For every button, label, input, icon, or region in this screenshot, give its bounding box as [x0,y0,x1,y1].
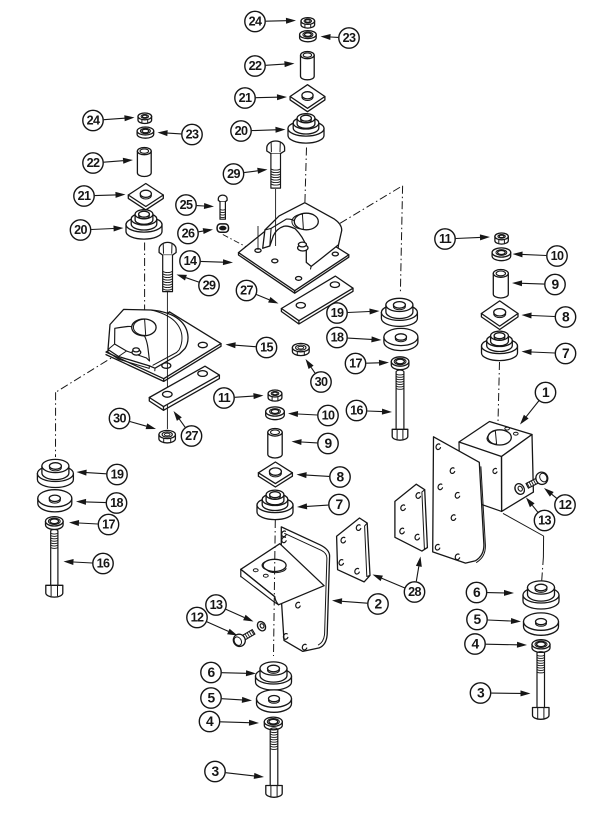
centerline nut26 to bracket14 hole [223,235,255,252]
svg-text:27: 27 [185,429,198,443]
svg-text:20: 20 [235,124,248,138]
svg-text:23: 23 [186,128,199,142]
callout 18 arrow [76,493,127,513]
svg-text:12: 12 [559,498,572,512]
nut 11 center [268,390,282,401]
callout 7 arrow [297,494,349,514]
washer 10 center [266,407,285,420]
svg-text:10: 10 [551,249,564,263]
bolt 3 bottom [266,728,282,797]
washer 13 right [513,482,526,496]
washer 13 left [256,620,267,632]
isolator 6 bottom [256,662,292,690]
svg-text:7: 7 [335,497,343,512]
callout 9 arrow [512,274,565,294]
svg-text:30: 30 [113,412,126,426]
callout 6 arrow [466,582,514,602]
isolator 19 left [37,459,73,487]
callout 10 arrow [513,246,568,266]
hole axis line bracket14 left [257,226,259,250]
washer 23 left [137,127,154,138]
square washer plate 21 top [290,85,325,112]
spacer 22 left [137,148,151,177]
washer 18 left [38,490,72,512]
bolt 12 left [231,626,257,648]
svg-text:11: 11 [218,391,231,405]
svg-text:12: 12 [191,611,204,625]
callout 24 arrow [245,11,296,31]
nut 26 [217,224,228,232]
svg-text:20: 20 [74,223,87,237]
svg-text:25: 25 [180,198,193,212]
callout 22 arrow [245,56,295,76]
centerline bell20b to bracket14 [305,148,307,207]
bolt 25 [218,195,227,219]
nut 24 left [138,113,152,124]
svg-text:16: 16 [97,557,110,571]
square washer plate 8 right [481,301,518,330]
plate 28 right [395,484,428,551]
washer 17 left [46,517,64,530]
washer 4 bottom [264,717,282,730]
callout 20 arrow [231,121,286,141]
bolt 12 right [524,470,550,491]
svg-text:7: 7 [562,346,570,361]
svg-text:1: 1 [542,385,550,400]
callout 29 arrow [177,275,220,296]
svg-text:19: 19 [331,306,344,320]
bracket 2 [241,527,330,652]
svg-text:9: 9 [324,436,332,451]
callout 25 arrow [176,195,214,215]
callout 6 arrow [201,662,256,682]
svg-text:6: 6 [473,585,481,600]
bolt 3 right [533,652,550,720]
washer 23 top [300,31,317,42]
callout 1 arrow [520,382,556,424]
svg-text:3: 3 [211,764,219,779]
nut 24 top [301,18,315,29]
bracket 15 [106,309,221,381]
nut 30 upper [292,343,309,355]
callout 8 arrow [522,307,576,327]
callout 27 arrow [236,280,278,303]
svg-text:6: 6 [207,665,215,680]
svg-text:21: 21 [78,189,91,203]
callout 22 arrow [83,153,133,173]
bolt 29 left [159,242,176,291]
isolator 19 mid [381,298,417,326]
svg-text:4: 4 [206,714,214,729]
callout 7 arrow [522,343,576,363]
callout 4 arrow [199,711,259,731]
svg-text:30: 30 [315,375,328,389]
svg-text:2: 2 [374,597,382,612]
washer 18 mid [384,328,418,350]
svg-text:3: 3 [477,686,485,701]
nut 11 right [495,233,508,244]
callout 3 arrow [470,683,530,703]
svg-text:24: 24 [87,114,100,128]
callout 13 arrow [206,595,254,622]
callout 21 arrow [74,186,126,206]
washer 10 right [492,248,511,261]
svg-text:8: 8 [336,470,344,485]
isolator 20 left [126,210,162,240]
washer 4 right [532,640,550,653]
callout 12 arrow [187,607,238,635]
callout 5 arrow [467,609,521,629]
bolt 29 top [267,141,285,188]
svg-text:16: 16 [350,404,363,418]
callout 23 arrow [321,28,360,48]
callout 24 arrow [83,110,135,130]
svg-text:19: 19 [111,468,124,482]
callout 5 arrow [201,688,252,708]
callout 11 arrow [435,229,490,249]
centerline bell20 to bracket15 [144,243,146,318]
svg-text:26: 26 [182,227,195,241]
bolt 16 left [46,529,63,597]
callout 10 arrow [288,405,338,425]
isolator 7 center [257,490,293,520]
svg-text:11: 11 [439,232,452,246]
svg-text:28: 28 [408,585,421,599]
svg-text:10: 10 [322,409,335,423]
svg-text:15: 15 [260,341,273,355]
svg-text:8: 8 [562,310,570,325]
callout 19 arrow [77,464,128,484]
centerline bracket15 to isolator19 [56,352,121,457]
washer 5 right [524,613,559,635]
plate 28 left [337,518,370,582]
axis line bolt29 left [166,292,168,430]
svg-text:29: 29 [203,279,216,293]
callout 30 arrow [109,408,156,429]
svg-text:4: 4 [471,637,479,652]
svg-text:17: 17 [102,518,115,532]
svg-text:24: 24 [249,15,262,29]
callout 29 arrow [223,164,267,184]
svg-text:18: 18 [110,496,123,510]
washer 17 mid [391,357,409,370]
flat bar 27 upper [281,276,353,324]
callout 20 arrow [70,220,123,240]
callout 15 arrow [226,337,277,357]
callout 11 arrow [214,388,264,408]
callout 8 arrow [297,467,351,487]
square washer plate 21 left [128,184,163,210]
svg-text:18: 18 [331,331,344,345]
callout 18 arrow [327,327,382,347]
callout 13 arrow [526,498,555,531]
centerline bracket14 to isolator19b [340,186,403,292]
centerline bell7 to bracket2 to bell6b [274,520,276,656]
svg-text:5: 5 [473,612,481,627]
square washer plate 8 center [258,462,292,487]
callout 27 arrow [174,411,202,446]
washer 5 bottom [257,690,292,712]
callout 12 arrow [544,488,575,515]
svg-text:13: 13 [210,598,223,612]
callout 3 arrow [205,761,264,781]
centerline bracket1 to bell6 [503,513,544,585]
svg-text:9: 9 [551,277,559,292]
svg-text:22: 22 [87,156,100,170]
callout 9 arrow [292,433,339,453]
svg-text:23: 23 [343,31,356,45]
callout 16 arrow [346,400,392,420]
callout 17 arrow [69,514,119,534]
svg-text:13: 13 [538,514,551,528]
spacer 22 top [301,52,315,80]
callout 17 arrow [345,353,389,373]
isolator 20 top [288,114,324,143]
svg-text:14: 14 [184,254,197,268]
svg-text:27: 27 [240,284,253,298]
nut 30 lower [159,430,176,443]
spacer 9 right [493,270,508,299]
spacer 9 center [268,429,282,459]
svg-text:21: 21 [239,91,252,105]
svg-text:5: 5 [207,691,215,706]
bracket 14 [239,203,349,294]
flat bar 27 lower [149,366,219,410]
callout 21 arrow [235,88,287,108]
callout 14 arrow [180,251,233,271]
bracket 1 [433,422,534,564]
callout 28 arrows [373,557,425,603]
callout 23 arrow [158,124,203,144]
svg-text:17: 17 [349,357,362,371]
callout 16 arrow [64,553,114,573]
callout 19 arrow [327,303,380,323]
callout 2 arrow [332,594,388,614]
bolt 16 mid [392,370,408,440]
callout 30 arrow [306,359,332,392]
centerline bell7b to bracket1 [498,362,500,430]
svg-text:29: 29 [227,167,240,181]
callout 4 arrow [465,634,527,654]
axis line bolt29 top [275,189,277,246]
isolator 6 right [523,581,559,609]
svg-text:22: 22 [249,59,262,73]
callout 26 arrow [178,223,213,243]
isolator 7 right [482,331,518,361]
